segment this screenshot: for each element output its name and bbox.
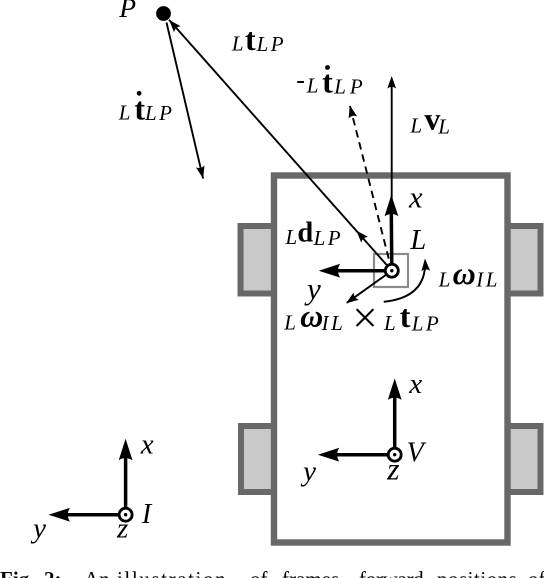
svg-text:An: An	[84, 567, 110, 578]
svg-text:L: L	[285, 225, 298, 249]
svg-text:L: L	[306, 74, 319, 98]
svg-text:forward: forward	[359, 567, 424, 578]
svg-text:LP: LP	[411, 312, 442, 336]
svg-text:Fig.: Fig.	[0, 567, 34, 578]
svg-text:positions: positions	[437, 567, 517, 578]
svg-text:z: z	[386, 452, 399, 487]
svg-text:-: -	[296, 66, 305, 95]
svg-text:of: of	[250, 567, 268, 578]
svg-text:LP: LP	[256, 32, 287, 56]
svg-text:ω: ω	[453, 255, 476, 291]
svg-text:x: x	[140, 429, 154, 461]
svg-text:L: L	[383, 311, 396, 335]
svg-text:x: x	[408, 181, 423, 215]
svg-text:I: I	[141, 499, 153, 530]
svg-text:L: L	[437, 115, 450, 139]
svg-text:d: d	[297, 218, 313, 249]
svg-text:L: L	[118, 101, 131, 125]
svg-text:x: x	[408, 368, 422, 400]
svg-text:LP: LP	[313, 226, 344, 250]
svg-text:V: V	[407, 438, 427, 469]
svg-text:P: P	[118, 0, 136, 23]
svg-text:L: L	[283, 311, 296, 335]
svg-text:LP: LP	[144, 101, 175, 125]
svg-text:y: y	[300, 456, 316, 488]
svg-text:L: L	[438, 267, 451, 291]
svg-text:z: z	[116, 513, 128, 545]
svg-text:t: t	[400, 298, 411, 334]
svg-text:L: L	[231, 31, 244, 55]
svg-text:frames: frames	[282, 567, 339, 578]
svg-text:t: t	[134, 90, 145, 126]
svg-text:y: y	[30, 513, 46, 545]
svg-text:L: L	[409, 114, 422, 138]
svg-text:of: of	[528, 567, 544, 578]
svg-text:IL: IL	[475, 267, 500, 291]
svg-text:2:: 2:	[44, 567, 62, 578]
svg-text:ω: ω	[300, 298, 323, 334]
svg-text:IL: IL	[321, 311, 346, 335]
svg-text:L: L	[409, 225, 426, 256]
svg-text:t: t	[245, 21, 256, 57]
svg-text:illustration: illustration	[117, 567, 227, 578]
svg-text:LP: LP	[333, 74, 367, 98]
